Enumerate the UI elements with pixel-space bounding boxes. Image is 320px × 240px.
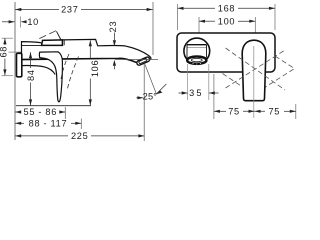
dim 225 [15, 135, 68, 137]
svg-text:168: 168 [218, 4, 235, 14]
wall extension line [14, 2, 16, 140]
svg-text:10: 10 [27, 17, 39, 27]
lever handle (closed) [42, 40, 63, 46]
svg-text:100: 100 [218, 16, 235, 26]
dim 75 75 [214, 110, 226, 112]
wall plate (escutcheon, side) [17, 53, 22, 77]
svg-text:68: 68 [0, 46, 8, 58]
spout underside bold [22, 58, 137, 62]
circle interior [187, 44, 207, 46]
dim 55-86 [64, 107, 66, 119]
raised lever solid edge [57, 31, 62, 40]
spout escutcheon circle [184, 38, 210, 64]
dim 168 [178, 7, 216, 9]
handle blade (grip) [39, 52, 62, 102]
blade raised dashed outline [61, 54, 70, 82]
75 extension ticks [213, 74, 215, 119]
dim 68 [4, 38, 6, 45]
svg-text:88 - 117: 88 - 117 [29, 118, 68, 128]
dashed diamond (handle swing envelope) [215, 43, 295, 95]
dim 106 [89, 40, 91, 58]
svg-text:106: 106 [90, 60, 100, 77]
svg-text:75: 75 [228, 106, 240, 116]
handle (front) [242, 40, 266, 100]
extension line plate bottom (68 dim) [2, 75, 14, 77]
raised lever dashed top [39, 31, 56, 39]
svg-text:237: 237 [61, 5, 78, 15]
body lower edge [22, 66, 56, 75]
wall plate (front) [177, 33, 275, 72]
spout body outline [22, 39, 151, 62]
svg-text:84: 84 [26, 69, 36, 81]
dim 237 [15, 9, 59, 11]
dim 100 [199, 20, 215, 22]
extension line aerator level (23 dim) [115, 59, 158, 61]
dim 25deg [136, 97, 143, 99]
extension line outlet (225) [143, 64, 145, 141]
dim 88-117 [80, 119, 82, 130]
reference line (rim) [16, 105, 91, 107]
svg-text:23: 23 [108, 21, 118, 33]
extension line top of raised lever (68 dim) [2, 37, 14, 39]
dim 35 [179, 92, 188, 94]
extension lines 100 [198, 17, 200, 33]
extension line spout tip (237) [152, 2, 154, 55]
handle centre line [253, 46, 255, 118]
svg-text:225: 225 [71, 131, 88, 141]
cartridge sleeve joint [63, 40, 65, 45]
dim 84 [30, 52, 32, 68]
svg-text:35: 35 [189, 88, 204, 98]
svg-text:75: 75 [268, 106, 280, 116]
25 deg slant line [145, 65, 156, 94]
extension line blade top (84 dim) [9, 51, 41, 53]
svg-text:25°: 25° [143, 91, 158, 101]
svg-text:55 - 86: 55 - 86 [24, 107, 58, 117]
projection lines under circle (35 dim ext) [187, 64, 189, 100]
dim 23 [113, 33, 115, 41]
spout tube top edge behind lever [22, 44, 42, 46]
extension lines 168 [177, 4, 179, 30]
dashed X (swing diagonals) [226, 48, 286, 90]
aerator [136, 56, 150, 65]
extension tick for 10 dim [20, 17, 22, 28]
dim 10 [2, 21, 15, 23]
